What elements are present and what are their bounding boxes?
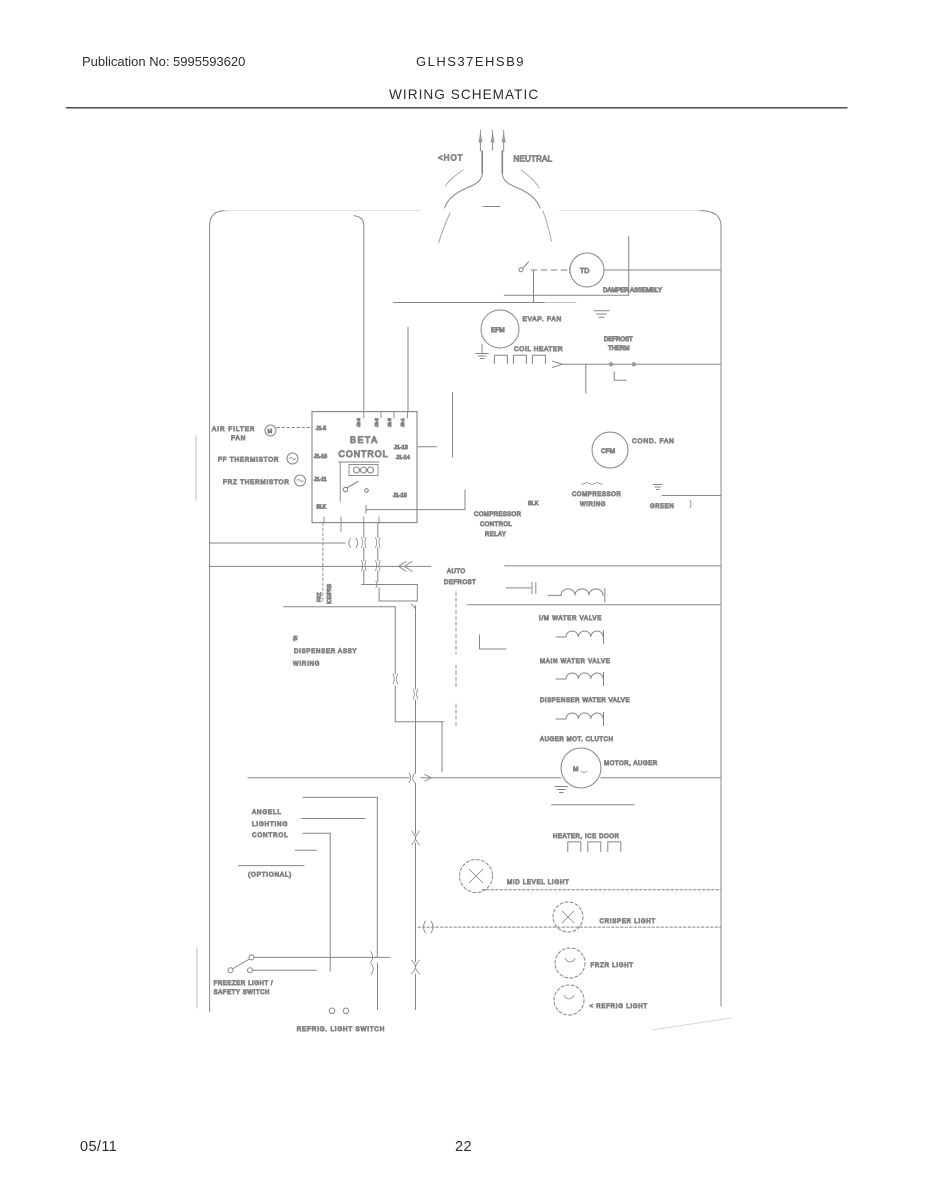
- defrost loop right side: [416, 585, 418, 602]
- freezer safety switch lever: [233, 959, 250, 969]
- svg-text:FRZ: FRZ: [317, 592, 323, 602]
- lights feed arrow: [425, 775, 432, 782]
- main water valve lead: [556, 636, 566, 638]
- power plug skirt left upper: [446, 170, 464, 186]
- svg-text:RELAY: RELAY: [485, 532, 506, 538]
- ice maker water valve bar: [604, 589, 606, 603]
- main water valve bar: [603, 631, 605, 644]
- main water valve coil: [566, 631, 603, 637]
- defrost cam capacitor lead: [506, 587, 531, 589]
- relay coil feed wire: [339, 461, 380, 463]
- relay switch contact: [365, 489, 369, 493]
- defrost thermostat contact right: [632, 362, 636, 366]
- damper switch wire to motor: [531, 269, 570, 271]
- cabinet border top-right faint: [560, 210, 700, 212]
- cabinet border right: [700, 211, 721, 1006]
- auger clutch bar: [603, 713, 605, 726]
- defrost drop wire: [585, 364, 587, 393]
- svg-text:CONTROL: CONTROL: [480, 522, 512, 528]
- dispenser stub down: [441, 722, 443, 772]
- dispenser drop wire left: [284, 607, 396, 722]
- dispenser drop wire right: [415, 606, 417, 722]
- svg-text:COIL HEATER: COIL HEATER: [514, 346, 563, 353]
- crisper light lamp: [553, 902, 583, 932]
- svg-text:CFM: CFM: [601, 448, 615, 455]
- wire bus B from border: [210, 565, 431, 567]
- freezer vertical connector arcs: [371, 952, 374, 975]
- ground symbol right of evap fan: [594, 311, 609, 317]
- svg-text:J1-13: J1-13: [394, 445, 408, 451]
- auger clutch lead: [556, 718, 566, 720]
- svg-text:ICE/PRS: ICE/PRS: [327, 583, 333, 604]
- svg-text:J2-3: J2-3: [356, 418, 361, 427]
- page curl mark bottom right: [652, 1018, 731, 1030]
- svg-text:SAFETY SWITCH: SAFETY SWITCH: [214, 990, 270, 996]
- damper motor lead tick: [569, 267, 571, 273]
- condenser fan motor: [592, 432, 628, 468]
- damper switch pivot: [519, 268, 523, 272]
- dispenser junction wire: [395, 721, 443, 723]
- wire lights feed right: [601, 777, 721, 779]
- svg-text:DAMPER ASSEMBLY: DAMPER ASSEMBLY: [603, 288, 662, 294]
- pin stub below control box: [340, 523, 342, 532]
- svg-text:TD: TD: [580, 268, 589, 275]
- svg-text:J2-2: J2-2: [374, 418, 379, 427]
- defrost therm bracket: [614, 372, 626, 380]
- svg-text:J1-14: J1-14: [396, 455, 410, 461]
- svg-text:MOTOR, AUGER: MOTOR, AUGER: [604, 761, 658, 767]
- dispenser water valve lead: [556, 678, 566, 680]
- svg-text:MAIN WATER VALVE: MAIN WATER VALVE: [540, 659, 611, 665]
- svg-text:(5: (5: [293, 636, 298, 642]
- dashed dispenser bus: [455, 592, 457, 727]
- wire green to border: [662, 495, 721, 497]
- svg-text:BLK: BLK: [528, 501, 539, 507]
- connector arcs on bus A: [349, 539, 358, 548]
- svg-text:22: 22: [455, 1139, 472, 1155]
- relay coil box: [349, 465, 378, 476]
- dispenser drop arcs right: [413, 689, 418, 699]
- defrost loop dashed return: [362, 584, 418, 586]
- FRZ thermistor symbol: [295, 475, 306, 486]
- wire riser to damper switch: [533, 271, 535, 303]
- svg-text:J1-13: J1-13: [314, 454, 327, 460]
- svg-text:FRZR LIGHT: FRZR LIGHT: [591, 963, 634, 969]
- lights feed arcs: [409, 773, 415, 783]
- wire bus A from border: [210, 542, 345, 544]
- wire evap row lower: [394, 302, 545, 304]
- svg-text:M: M: [268, 429, 273, 435]
- stub vertical right of control box: [452, 393, 454, 458]
- wire under damper label: [504, 294, 628, 296]
- vertical stub above damper label: [628, 236, 630, 295]
- svg-text:AUTO: AUTO: [447, 569, 466, 575]
- lighting control right drop: [376, 797, 378, 957]
- svg-text:CONTROL: CONTROL: [252, 832, 288, 839]
- auger motor: [561, 748, 601, 788]
- power plug skirt right lower: [543, 211, 552, 241]
- svg-text:NEUTRAL: NEUTRAL: [514, 155, 553, 164]
- dispenser drop arcs left: [393, 674, 398, 684]
- optional rule: [238, 865, 304, 867]
- wire evap row lower faint tail: [545, 302, 576, 304]
- svg-text:COND. FAN: COND. FAN: [632, 438, 675, 445]
- svg-text:DISPENSER ASSY: DISPENSER ASSY: [294, 649, 357, 655]
- svg-text:FF THERMISTOR: FF THERMISTOR: [218, 457, 279, 464]
- svg-text:J1-15: J1-15: [393, 493, 407, 499]
- freezer switch lower wire: [253, 969, 317, 971]
- lighting control inner drop: [329, 833, 331, 971]
- long vertical connector arcs upper: [412, 831, 420, 845]
- refrig light lamp: [554, 985, 584, 1015]
- auger motor ground symbol: [555, 787, 568, 793]
- freezer light lamp: [555, 948, 585, 978]
- svg-text:BLK: BLK: [317, 505, 327, 511]
- auger clutch coil: [566, 713, 603, 719]
- relay switch lever: [348, 482, 359, 488]
- svg-text:EVAP. FAN: EVAP. FAN: [523, 316, 562, 323]
- freezer safety switch contact lower: [248, 968, 253, 973]
- power plug skirt left lower: [439, 213, 451, 243]
- relay switch lead: [339, 462, 341, 501]
- damper motor TD: [570, 253, 604, 287]
- svg-text:I/M WATER VALVE: I/M WATER VALVE: [539, 616, 602, 622]
- dispenser water valve bar: [603, 673, 605, 686]
- green hook mark: [690, 500, 691, 508]
- svg-text:COMPRESSOR: COMPRESSOR: [572, 492, 621, 498]
- vertical bus second: [407, 327, 409, 411]
- dispenser drop arc top: [411, 604, 416, 610]
- control box BBTA: [312, 412, 417, 523]
- header rule: [67, 107, 848, 109]
- long vertical connector arcs lower: [412, 960, 420, 974]
- control box top pin ticks: [364, 412, 408, 418]
- compressor ground symbol: [654, 485, 663, 490]
- refrig light switch contact left: [329, 1008, 335, 1014]
- svg-text:EFM: EFM: [491, 327, 505, 334]
- ice maker water valve coil: [561, 589, 603, 596]
- svg-text:<HOT: <HOT: [438, 154, 464, 163]
- svg-text:COMPRESSOR: COMPRESSOR: [474, 512, 522, 518]
- compressor relay wire from control box: [366, 490, 465, 510]
- lighting control wire mid: [302, 818, 365, 820]
- control box bottom pin ticks: [324, 517, 379, 523]
- defrost loop bottom: [379, 600, 417, 602]
- svg-text:(OPTIONAL): (OPTIONAL): [248, 872, 292, 879]
- power plug ground slot dash: [483, 206, 500, 208]
- svg-text:ANGELL: ANGELL: [252, 809, 282, 816]
- svg-text:WIRING: WIRING: [580, 502, 606, 508]
- svg-text:CRISPER LIGHT: CRISPER LIGHT: [600, 919, 656, 925]
- relay wire tick: [365, 506, 367, 514]
- svg-text:DEFROST: DEFROST: [444, 580, 476, 586]
- freezer vertical lower: [377, 963, 379, 1010]
- svg-text:WIRING SCHEMATIC: WIRING SCHEMATIC: [389, 87, 539, 102]
- auto defrost arrows: [399, 562, 413, 572]
- dashed wire air filter fan to box: [277, 427, 312, 429]
- power plug prong left (HOT): [479, 142, 481, 151]
- svg-text:J2-5: J2-5: [387, 418, 392, 427]
- lighting control wire top: [303, 796, 377, 798]
- compressor wiring squiggle: [582, 483, 602, 485]
- freezer switch common wire: [254, 956, 390, 958]
- relay coil loops: [354, 467, 360, 473]
- lighting control stub: [295, 849, 316, 851]
- svg-text:GREEN: GREEN: [650, 504, 674, 510]
- defrost cam capacitor plates: [532, 583, 536, 594]
- wire water valve feed: [505, 565, 721, 567]
- ice door heater element: [568, 842, 621, 852]
- main vertical bus left: [354, 216, 364, 411]
- svg-text:FRZ THERMISTOR: FRZ THERMISTOR: [223, 479, 290, 486]
- power plug bell left: [445, 173, 483, 208]
- svg-text:M: M: [573, 766, 578, 773]
- power plug lead left: [481, 151, 483, 173]
- svg-text:AUGER MOT. CLUTCH: AUGER MOT. CLUTCH: [540, 737, 614, 743]
- svg-text:J2-1: J2-1: [400, 418, 405, 427]
- refrig light switch contact right: [343, 1008, 349, 1014]
- svg-text:BETA: BETA: [350, 435, 379, 445]
- power plug prong middle (ground): [492, 142, 494, 150]
- wire valve row: [468, 604, 722, 606]
- dispenser bracket: [480, 635, 507, 649]
- wire damper to right border: [604, 269, 721, 271]
- svg-text:05/11: 05/11: [80, 1139, 117, 1155]
- svg-text:GLHS37EHSB9: GLHS37EHSB9: [416, 54, 525, 69]
- connector bracket outside border upper: [195, 436, 197, 500]
- pin drop wire J2 left: [363, 523, 365, 585]
- svg-text:LIGHTING: LIGHTING: [252, 821, 288, 828]
- air filter fan motor M: [265, 425, 276, 436]
- long vertical to lights: [415, 722, 417, 1010]
- svg-text:J1-11: J1-11: [314, 477, 327, 483]
- svg-text:Publication No: 5995593620: Publication No: 5995593620: [82, 54, 245, 69]
- evap fan ground lead: [481, 345, 483, 353]
- svg-text:CONTROL: CONTROL: [339, 449, 389, 459]
- svg-text:REFRIG. LIGHT SWITCH: REFRIG. LIGHT SWITCH: [297, 1026, 385, 1033]
- cabinet border left: [210, 211, 225, 1012]
- wire heater ice door feed: [552, 804, 634, 806]
- pin drop wire J2 right: [378, 523, 379, 601]
- power plug bell right: [502, 173, 540, 208]
- power plug skirt right upper: [521, 170, 539, 188]
- wire heater to right border: [562, 363, 721, 365]
- ice maker water valve lead: [548, 594, 561, 596]
- connector bracket outside border lower: [196, 948, 198, 1008]
- lighting control wire low: [303, 832, 330, 834]
- relay switch pivot: [343, 487, 347, 491]
- evap fan ground symbol: [476, 354, 488, 359]
- svg-text:J1-5: J1-5: [316, 426, 326, 432]
- svg-text:AIR FILTER: AIR FILTER: [212, 426, 255, 433]
- cabinet border top-left faint: [225, 210, 420, 212]
- dashed pin drop wire: [322, 523, 324, 603]
- pin drop arcs right: [376, 538, 381, 589]
- svg-text:WIRING: WIRING: [293, 662, 320, 668]
- svg-text:HEATER, ICE DOOR: HEATER, ICE DOOR: [553, 834, 620, 840]
- svg-text:< REFRIG LIGHT: < REFRIG LIGHT: [590, 1004, 648, 1010]
- defrost heater element: [494, 355, 545, 363]
- power plug lead right: [501, 151, 503, 173]
- svg-text:DEFROST: DEFROST: [604, 337, 633, 343]
- power plug prong right (NEUTRAL): [503, 142, 505, 151]
- svg-text:FREEZER LIGHT /: FREEZER LIGHT /: [214, 981, 274, 987]
- stub wire J1-13: [417, 446, 437, 448]
- heater output arrow: [553, 361, 563, 367]
- dispenser water valve coil: [566, 673, 603, 679]
- freezer safety switch contact lower-left: [228, 968, 233, 973]
- evap fan motor: [481, 310, 519, 348]
- svg-text:MID LEVEL LIGHT: MID LEVEL LIGHT: [507, 880, 569, 886]
- wire lights feed left: [248, 777, 561, 779]
- pin drop arcs left: [362, 538, 367, 571]
- dashed wire crisper light: [418, 926, 721, 928]
- dashed wire mid level light: [482, 889, 721, 891]
- freezer safety switch pivot: [249, 955, 254, 960]
- mid level light lamp: [460, 860, 493, 893]
- crisper wire connector arcs: [424, 921, 434, 933]
- svg-text:FAN: FAN: [231, 435, 246, 442]
- defrost thermostat contact left: [609, 362, 613, 366]
- damper switch lever: [523, 262, 529, 268]
- svg-text:THERM: THERM: [608, 346, 629, 352]
- FF thermistor symbol: [287, 453, 298, 464]
- svg-text:DISPENSER WATER VALVE: DISPENSER WATER VALVE: [540, 698, 630, 704]
